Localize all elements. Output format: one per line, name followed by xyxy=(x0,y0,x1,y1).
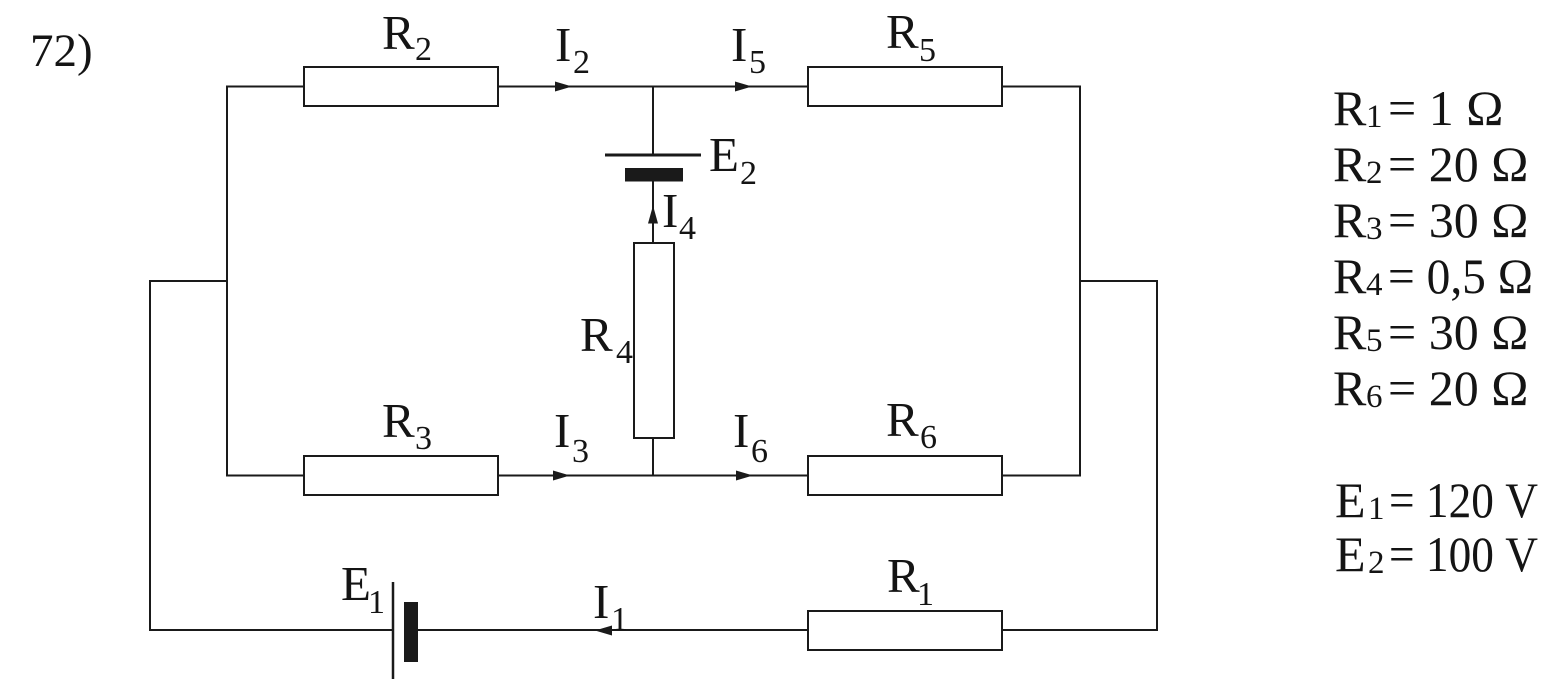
svg-text:3: 3 xyxy=(415,420,432,457)
svg-text:R: R xyxy=(382,393,415,448)
wire right inner vertical xyxy=(1079,86,1081,477)
svg-text:3: 3 xyxy=(572,433,589,470)
svg-text:= 30 Ω: = 30 Ω xyxy=(1388,304,1528,360)
label I4 xyxy=(662,183,696,247)
current arrow I5 xyxy=(735,82,752,92)
svg-text:I: I xyxy=(555,17,571,72)
wire bottom middle xyxy=(418,629,808,631)
value R5 = 30 Ohm xyxy=(1333,304,1528,360)
value R4 = 0,5 Ohm xyxy=(1333,248,1533,304)
svg-text:R: R xyxy=(887,548,920,603)
battery E2 short thick plate xyxy=(625,168,683,182)
svg-text:= 0,5 Ω: = 0,5 Ω xyxy=(1388,248,1533,304)
svg-text:5: 5 xyxy=(919,32,936,69)
svg-text:3: 3 xyxy=(1366,211,1383,247)
svg-text:1: 1 xyxy=(917,576,934,613)
svg-text:I: I xyxy=(731,17,747,72)
label R3 xyxy=(382,393,432,457)
current arrow I6 xyxy=(736,471,753,481)
label E1 xyxy=(341,556,385,621)
wire middle row right of R6 xyxy=(1002,475,1081,477)
value E2 = 100 V xyxy=(1335,526,1538,582)
svg-text:72): 72) xyxy=(30,25,93,77)
svg-text:= 1 Ω: = 1 Ω xyxy=(1388,80,1503,136)
svg-text:4: 4 xyxy=(1366,267,1383,303)
svg-text:2: 2 xyxy=(1366,155,1383,191)
value R1 = 1 Ohm xyxy=(1333,80,1503,136)
svg-text:= 20 Ω: = 20 Ω xyxy=(1388,136,1528,192)
current arrow I3 xyxy=(553,471,570,481)
svg-text:I: I xyxy=(554,403,570,458)
svg-text:6: 6 xyxy=(751,433,768,470)
svg-text:= 20 Ω: = 20 Ω xyxy=(1388,360,1528,416)
svg-text:4: 4 xyxy=(679,210,696,247)
svg-text:= 100 V: = 100 V xyxy=(1389,526,1538,582)
svg-text:R: R xyxy=(886,392,919,447)
svg-text:5: 5 xyxy=(1366,323,1383,359)
label R5 xyxy=(886,4,936,69)
svg-text:E: E xyxy=(341,556,371,611)
label E2 xyxy=(709,127,757,192)
wire top middle (R2 to R5) xyxy=(498,86,808,88)
svg-text:6: 6 xyxy=(920,419,937,456)
value R2 = 20 Ohm xyxy=(1333,136,1528,192)
current arrow I2 xyxy=(555,82,572,92)
svg-text:R: R xyxy=(382,5,415,60)
label R6 xyxy=(886,392,937,456)
wire top-left horizontal xyxy=(227,86,304,88)
svg-text:E: E xyxy=(1335,526,1366,582)
svg-text:1: 1 xyxy=(1368,491,1385,527)
wire R4 to middle row xyxy=(652,438,654,476)
svg-text:2: 2 xyxy=(415,31,432,68)
resistor R6 xyxy=(808,456,1002,495)
label R1 xyxy=(887,548,934,613)
svg-text:1: 1 xyxy=(611,601,628,638)
label R2 xyxy=(382,5,432,68)
wire left inner vertical xyxy=(226,86,228,477)
svg-text:E: E xyxy=(1335,472,1366,528)
wire bottom right xyxy=(1002,629,1157,631)
resistor R4 xyxy=(634,243,674,438)
wire top right of R5 xyxy=(1002,86,1081,88)
label R4 xyxy=(580,307,633,371)
wire right outer vertical xyxy=(1156,280,1158,631)
label I2 xyxy=(555,17,590,81)
svg-text:2: 2 xyxy=(1368,545,1385,581)
wire left connector xyxy=(149,280,227,282)
value E1 = 120 V xyxy=(1335,472,1538,528)
value R3 = 30 Ohm xyxy=(1333,192,1528,248)
wire middle row left xyxy=(227,475,304,477)
current arrow I1 xyxy=(595,626,612,636)
svg-text:R: R xyxy=(1333,192,1367,248)
label I5 xyxy=(731,17,766,81)
svg-text:= 120 V: = 120 V xyxy=(1389,472,1538,528)
svg-text:1: 1 xyxy=(1366,99,1383,135)
label I3 xyxy=(554,403,589,470)
svg-text:= 30 Ω: = 30 Ω xyxy=(1388,192,1528,248)
wire E2 to R4 xyxy=(652,181,654,243)
current arrow I4 xyxy=(648,206,658,224)
svg-text:I: I xyxy=(593,574,609,629)
svg-text:1: 1 xyxy=(368,584,385,621)
wire mid vertical above E2 xyxy=(652,87,654,156)
value R6 = 20 Ohm xyxy=(1333,360,1528,416)
svg-text:4: 4 xyxy=(616,334,633,371)
svg-text:E: E xyxy=(709,127,739,182)
svg-text:6: 6 xyxy=(1366,379,1383,415)
svg-text:R: R xyxy=(1333,248,1367,304)
svg-text:R: R xyxy=(1333,304,1367,360)
svg-text:R: R xyxy=(1333,136,1367,192)
battery E1 short thick plate xyxy=(404,602,418,662)
wire middle row center (R3 to R6) xyxy=(498,475,808,477)
wire right connector xyxy=(1080,280,1157,282)
resistor R5 xyxy=(808,67,1002,106)
svg-text:R: R xyxy=(886,4,919,59)
wire left outer vertical xyxy=(149,280,151,631)
svg-text:R: R xyxy=(1333,360,1367,416)
label I1 xyxy=(593,574,628,638)
svg-text:R: R xyxy=(1333,80,1367,136)
svg-text:2: 2 xyxy=(740,155,757,192)
svg-text:I: I xyxy=(733,403,749,458)
resistor R1 xyxy=(808,611,1002,650)
wire bottom left xyxy=(149,629,393,631)
battery E1 long plate xyxy=(392,582,395,679)
svg-text:I: I xyxy=(662,183,678,238)
resistor R2 xyxy=(304,67,498,106)
svg-text:5: 5 xyxy=(749,44,766,81)
svg-text:R: R xyxy=(580,307,613,362)
label I6 xyxy=(733,403,768,470)
battery E2 long plate xyxy=(605,154,701,157)
svg-text:2: 2 xyxy=(573,44,590,81)
resistor R3 xyxy=(304,456,498,495)
